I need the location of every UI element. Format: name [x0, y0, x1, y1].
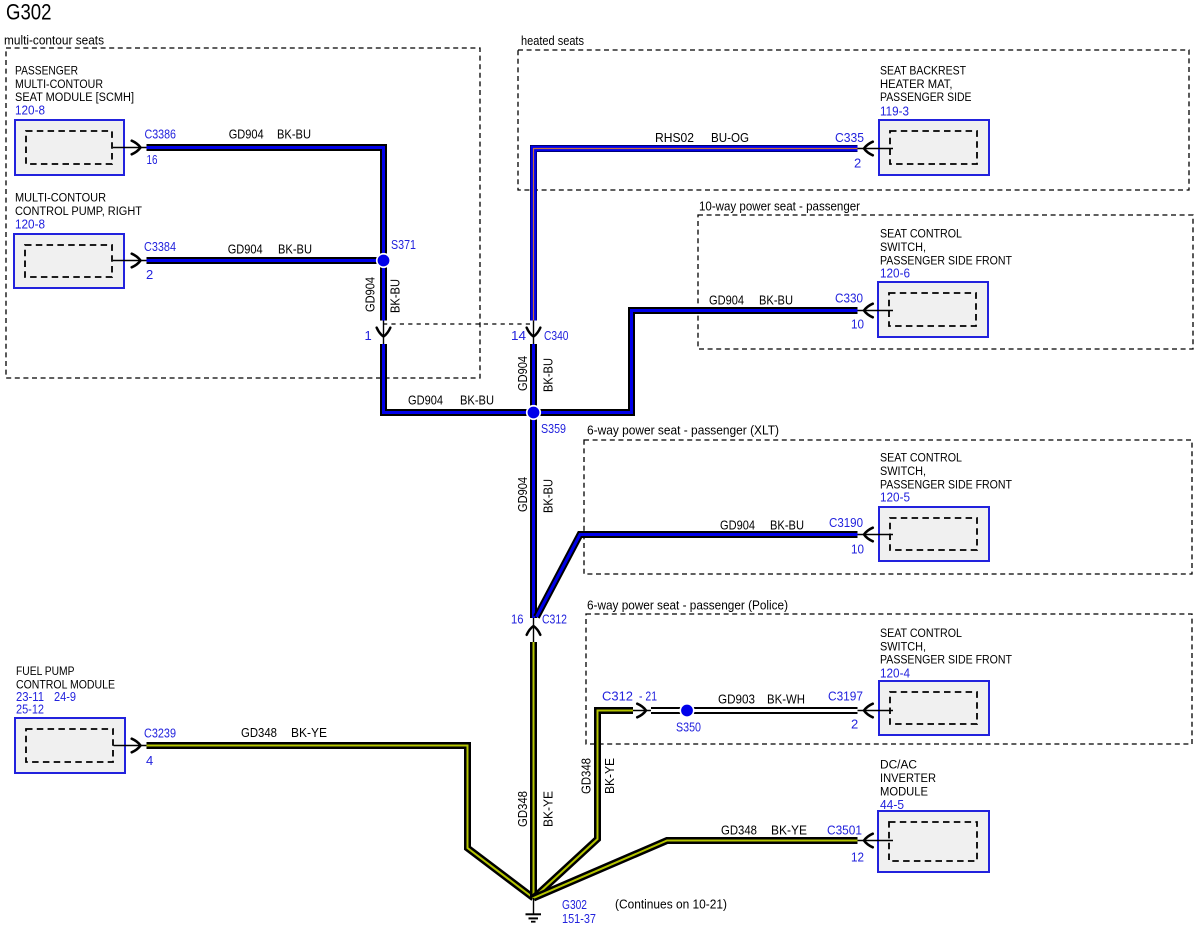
svg-text:BK-YE: BK-YE: [291, 725, 327, 740]
stub line C3384: [113, 260, 147, 262]
connector arrow C3384: [132, 254, 141, 268]
svg-text:BK-BU: BK-BU: [460, 393, 494, 408]
svg-text:C312: C312: [602, 689, 633, 704]
svg-text:SEAT CONTROL: SEAT CONTROL: [880, 227, 962, 241]
connector arrow C312 pin 16: [527, 626, 541, 635]
component box U7 seat control switch Police: [879, 681, 989, 735]
svg-text:FUEL PUMP: FUEL PUMP: [16, 664, 75, 678]
svg-text:SEAT CONTROL: SEAT CONTROL: [880, 626, 962, 640]
svg-text:BK-BU: BK-BU: [541, 358, 556, 392]
svg-text:SWITCH,: SWITCH,: [880, 464, 926, 478]
svg-text:10: 10: [851, 317, 864, 332]
svg-text:4: 4: [146, 753, 153, 768]
stub line C3386: [113, 147, 147, 149]
svg-text:2: 2: [146, 267, 153, 282]
stub line through pin 1 arrow: [383, 319, 385, 344]
wire GD904 BK-BU XLT branch to C3190: [537, 535, 858, 618]
connector arrow C330: [864, 304, 873, 318]
wire GD348 BK-YE C312-21 branch to ground: [534, 711, 634, 899]
svg-text:C312: C312: [542, 612, 567, 627]
svg-text:BK-YE: BK-YE: [771, 823, 807, 838]
stub line C330: [858, 310, 894, 312]
connector arrow C3190: [864, 528, 873, 542]
svg-text:DC/AC: DC/AC: [880, 758, 917, 772]
svg-text:heated seats: heated seats: [521, 33, 584, 48]
connector arrow C3386: [132, 141, 141, 155]
stub line through C312 arrow: [533, 618, 535, 642]
wire GD348 BK-YE fuel pump C3239 to ground: [147, 746, 534, 899]
svg-text:C340: C340: [544, 328, 569, 343]
svg-text:G302: G302: [562, 897, 587, 912]
splice S371: [376, 253, 391, 268]
svg-text:BK-BU: BK-BU: [541, 479, 556, 513]
wire RHS02 BU-OG C335 to C340: [534, 149, 858, 321]
wire GD348 BK-YE C3501 to ground: [534, 841, 858, 899]
svg-text:S350: S350: [676, 720, 701, 735]
component box U6 seat control switch XLT: [879, 507, 989, 561]
svg-text:BU-OG: BU-OG: [711, 130, 749, 145]
dashed inline connector link C340: [383, 323, 534, 325]
component box U5 seat control switch 10-way: [878, 282, 988, 337]
svg-text:6-way power seat - passenger (: 6-way power seat - passenger (Police): [587, 598, 788, 613]
svg-text:12: 12: [851, 850, 864, 865]
svg-text:C3190: C3190: [829, 515, 863, 530]
svg-text:16: 16: [511, 612, 524, 627]
svg-text:24-9: 24-9: [54, 689, 76, 704]
svg-text:GD904: GD904: [229, 127, 264, 142]
svg-text:multi-contour seats: multi-contour seats: [4, 33, 104, 48]
svg-text:G302: G302: [6, 0, 52, 25]
svg-text:S359: S359: [541, 421, 566, 436]
svg-text:2: 2: [851, 717, 858, 732]
svg-text:16: 16: [147, 152, 158, 167]
svg-text:6-way power seat - passenger (: 6-way power seat - passenger (XLT): [587, 423, 779, 438]
svg-text:120-6: 120-6: [880, 266, 910, 281]
connector arrow C340 pin 14: [527, 328, 541, 337]
svg-text:GD348: GD348: [515, 791, 530, 827]
stub line through C340 arrow: [533, 319, 535, 344]
component box U3 fuel pump control module: [15, 718, 125, 773]
svg-text:(Continues on 10-21): (Continues on 10-21): [615, 898, 727, 912]
svg-text:BK-WH: BK-WH: [767, 692, 805, 707]
component box U1 passenger multi-contour seat module: [15, 120, 124, 175]
wire GD348 BK-YE main vertical C312 to ground: [530, 642, 537, 898]
svg-text:120-8: 120-8: [15, 216, 45, 231]
svg-text:25-12: 25-12: [16, 702, 44, 717]
svg-text:C330: C330: [835, 291, 863, 306]
svg-text:GD904: GD904: [363, 277, 378, 312]
splice S359: [526, 405, 541, 420]
svg-text:GD348: GD348: [241, 725, 277, 740]
svg-text:SWITCH,: SWITCH,: [880, 240, 926, 254]
dashed box heated seats: [518, 50, 1189, 190]
svg-text:C335: C335: [835, 130, 864, 145]
svg-text:S371: S371: [391, 237, 416, 252]
dashed box 6-way power seat - passenger (Police): [586, 614, 1192, 744]
svg-text:GD904: GD904: [515, 356, 530, 391]
svg-text:PASSENGER SIDE: PASSENGER SIDE: [880, 90, 972, 104]
wire GD904 BK-BU C340 down through S359 to C312: [530, 344, 537, 618]
svg-text:RHS02: RHS02: [655, 130, 694, 145]
connector arrow C335: [864, 142, 873, 156]
dashed box multi-contour seats: [6, 48, 480, 378]
svg-text:BK-YE: BK-YE: [602, 758, 617, 794]
connector arrow C312 pin 21: [637, 704, 646, 718]
svg-text:14: 14: [511, 328, 526, 343]
svg-text:GD904: GD904: [515, 477, 530, 512]
svg-text:10: 10: [851, 542, 864, 557]
svg-text:C3384: C3384: [144, 239, 176, 254]
svg-text:GD904: GD904: [408, 393, 443, 408]
svg-text:GD348: GD348: [721, 823, 757, 838]
component box U2 multi-contour control pump right: [14, 234, 124, 288]
svg-text:BK-BU: BK-BU: [770, 518, 804, 533]
svg-text:- 21: - 21: [639, 689, 657, 704]
svg-text:GD903: GD903: [718, 692, 755, 707]
svg-text:10-way power seat - passenger: 10-way power seat - passenger: [699, 199, 861, 214]
svg-text:2: 2: [854, 156, 861, 171]
svg-text:HEATER MAT,: HEATER MAT,: [880, 77, 953, 91]
stub line C3197: [858, 710, 894, 712]
svg-text:151-37: 151-37: [562, 911, 596, 926]
svg-text:120-8: 120-8: [15, 103, 45, 118]
svg-text:SEAT BACKREST: SEAT BACKREST: [880, 64, 966, 78]
connector arrow C3197: [864, 704, 873, 718]
wire GD904 BK-BU pin1 down to S359 and up to C330: [384, 311, 858, 413]
svg-text:GD904: GD904: [720, 518, 755, 533]
stub line C3501: [858, 840, 894, 842]
svg-text:C3239: C3239: [144, 726, 176, 741]
wire GD904 BK-BU C3386 to S371 vertical: [147, 148, 384, 321]
svg-text:GD904: GD904: [709, 293, 744, 308]
component box U4 seat backrest heater mat: [879, 120, 989, 175]
connector arrow C3501: [864, 834, 873, 848]
svg-text:SWITCH,: SWITCH,: [880, 639, 926, 653]
stub line C3239: [114, 745, 147, 747]
svg-text:INVERTER: INVERTER: [880, 771, 936, 785]
stub line through C312-21 arrow: [633, 710, 651, 712]
svg-text:C3197: C3197: [828, 689, 863, 704]
wire GD904 BK-BU C3384 to S371: [147, 257, 384, 264]
stub line C335: [858, 148, 894, 150]
svg-text:BK-BU: BK-BU: [278, 242, 312, 257]
ground G302 symbol: [533, 898, 535, 914]
svg-text:BK-BU: BK-BU: [759, 293, 793, 308]
svg-text:44-5: 44-5: [880, 797, 904, 812]
svg-text:120-5: 120-5: [880, 490, 910, 505]
dashed box 6-way power seat - passenger (XLT): [584, 440, 1192, 574]
svg-text:C3386: C3386: [145, 127, 177, 142]
stub line C3190: [858, 534, 894, 536]
component box U8 dc/ac inverter module: [878, 811, 989, 872]
dashed box 10-way power seat - passenger: [698, 215, 1193, 349]
svg-text:BK-YE: BK-YE: [541, 791, 556, 827]
svg-text:BK-BU: BK-BU: [277, 127, 311, 142]
svg-text:GD904: GD904: [228, 242, 263, 257]
svg-text:MULTI-CONTOUR: MULTI-CONTOUR: [15, 191, 106, 205]
connector arrow C3239: [132, 739, 141, 753]
svg-text:C3501: C3501: [827, 823, 862, 838]
svg-text:MULTI-CONTOUR: MULTI-CONTOUR: [15, 77, 103, 91]
svg-text:BK-BU: BK-BU: [388, 279, 403, 313]
svg-text:119-3: 119-3: [880, 104, 909, 119]
svg-text:1: 1: [365, 328, 372, 343]
svg-text:GD348: GD348: [579, 758, 594, 794]
wire GD903 BK-WH S350 to C3197: [651, 707, 858, 714]
svg-text:PASSENGER: PASSENGER: [15, 64, 78, 78]
connector arrow pin 1: [377, 328, 391, 337]
svg-text:SEAT CONTROL: SEAT CONTROL: [880, 451, 962, 465]
svg-text:120-4: 120-4: [880, 666, 910, 681]
splice S350: [679, 703, 694, 718]
